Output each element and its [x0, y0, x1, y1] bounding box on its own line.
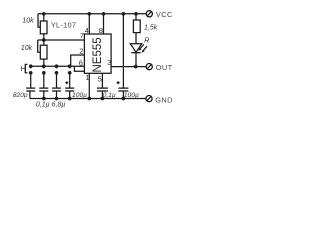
pin 7 label [80, 31, 84, 40]
node H lower dots [29, 71, 72, 75]
pin 1 lead to ground [87, 73, 91, 100]
svg-text:8: 8 [99, 26, 103, 35]
resistor R 1.5k [133, 12, 140, 44]
label GND [155, 95, 173, 104]
wire top VCC rail [38, 13, 146, 15]
capacitor C1 820p [26, 73, 35, 99]
wire R1 wiper to rail [38, 14, 40, 27]
label VCC [156, 10, 173, 19]
pin 5 lead [101, 73, 103, 87]
pin 2 label [79, 47, 83, 56]
svg-text:NE555: NE555 [92, 37, 104, 72]
svg-text:1,5k: 1,5k [144, 25, 158, 32]
pin 5 label [98, 75, 102, 84]
label OUT [156, 63, 173, 72]
pin 1 label [86, 73, 90, 82]
op-amp U1 NE555 box [84, 34, 111, 73]
label R2 value 10k [21, 45, 33, 52]
terminal OUT [146, 64, 152, 70]
label R1 value 10k [22, 18, 34, 25]
label R value 1.5k [144, 25, 158, 32]
resistor R2 10k [40, 40, 47, 66]
capacitor C2 0.1u [39, 73, 48, 99]
capacitor C5 0.1u on pin5 [97, 88, 108, 100]
wire pin 6 rail node H [31, 65, 85, 67]
node LED cathode junction [134, 65, 138, 69]
svg-text:6: 6 [79, 58, 83, 67]
LED D1 [130, 44, 147, 67]
capacitor C4 100u electrolytic [65, 73, 74, 99]
capacitor C6 100u electrolytic on rail [117, 12, 129, 100]
label C1 820p [13, 92, 28, 99]
label C2 C3 values [36, 102, 65, 109]
svg-text:10k: 10k [22, 18, 34, 25]
svg-text:GND: GND [155, 95, 173, 104]
wire pin 7 net [38, 39, 85, 41]
svg-text:R: R [144, 37, 149, 44]
svg-text:3: 3 [107, 58, 111, 67]
wire GND rail [30, 97, 146, 101]
node H upper dots [29, 64, 72, 68]
pin 3 label [107, 58, 111, 67]
pin 8 label [99, 26, 103, 35]
label H connector [21, 64, 28, 73]
svg-text:OUT: OUT [156, 63, 173, 72]
wire pin 2 [71, 55, 85, 66]
capacitor C3 6.8u [52, 73, 61, 99]
svg-text:7: 7 [80, 31, 84, 40]
svg-text:0,1µ 6,8µ: 0,1µ 6,8µ [36, 102, 65, 109]
wire R2 wiper [38, 40, 41, 52]
wire pin 3 to OUT [111, 66, 146, 68]
svg-text:0,1µ: 0,1µ [103, 92, 116, 99]
terminal GND [146, 96, 152, 102]
label C6 100u [124, 92, 139, 99]
svg-text:100µ: 100µ [124, 92, 139, 99]
svg-text:VCC: VCC [156, 10, 173, 19]
svg-text:5: 5 [98, 75, 102, 84]
resistor R1 10k [40, 14, 47, 40]
wire jog to IC lower left [74, 66, 84, 71]
pin 4 label [85, 26, 89, 35]
label C4 100u [72, 92, 87, 99]
node R1 top on rail [42, 12, 46, 16]
label C5 0.1u [103, 92, 116, 99]
svg-text:10k: 10k [21, 45, 33, 52]
label YL-107 [51, 20, 76, 29]
label R designator [144, 37, 149, 44]
terminal VCC [146, 11, 152, 17]
pin 8 lead [102, 12, 106, 34]
svg-text:YL-107: YL-107 [51, 20, 76, 29]
pin 4 lead [87, 12, 91, 34]
node junction R1/R2/pin7 [42, 38, 46, 42]
svg-text:2: 2 [79, 47, 83, 56]
svg-text:1: 1 [86, 73, 90, 82]
svg-text:820p: 820p [13, 92, 28, 99]
pin 6 label [79, 58, 83, 67]
svg-text:4: 4 [85, 26, 89, 35]
